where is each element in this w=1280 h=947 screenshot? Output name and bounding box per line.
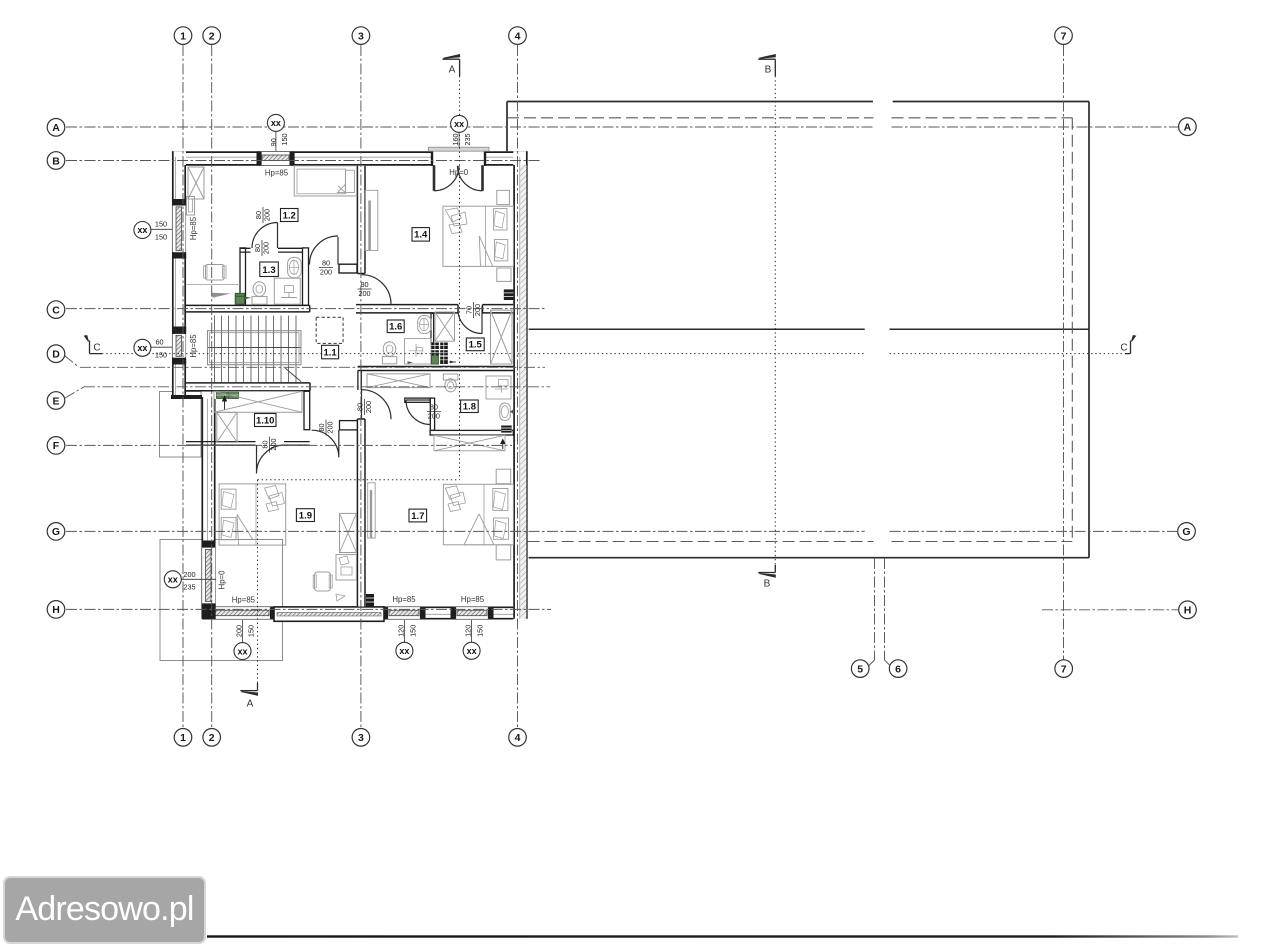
svg-text:200: 200 (364, 401, 373, 413)
section line A-A dotted upper (459, 76, 461, 480)
wall south of 1.6/1.5 (358, 366, 514, 370)
east exterior wall (513, 151, 527, 619)
cabinet 1.1 dashed (316, 317, 343, 343)
terrace left large (160, 540, 283, 661)
grid circle 2 bottom (203, 729, 221, 747)
svg-text:200: 200 (326, 421, 335, 433)
grid line H (66, 608, 1178, 610)
radiator 1.3 green (235, 293, 244, 304)
grid line G (66, 530, 1177, 532)
door 1.4 leaf and arc (362, 275, 392, 305)
roof outline top edge (507, 101, 1089, 103)
wardrobe 1.9 (340, 513, 357, 552)
door hall-1.2 leaf and arc (310, 236, 339, 265)
svg-text:1.3: 1.3 (262, 265, 275, 276)
svg-text:H: H (1184, 605, 1192, 617)
toilet 1.6 (382, 342, 396, 364)
grid circle 1 top (174, 27, 192, 45)
roof outline left edge (506, 102, 508, 152)
balcony door 160/235 north opening (432, 150, 485, 166)
bed 1.2 single (294, 166, 356, 196)
balcony double door right (481, 165, 484, 191)
svg-text:120: 120 (396, 625, 405, 637)
room label 1.3 (260, 262, 279, 277)
grid circle G right (1178, 523, 1196, 541)
flue 1.8 (501, 426, 512, 433)
door 1.3 leaf and arc (252, 222, 278, 248)
bed 1.4 double (443, 206, 514, 266)
room label 1.1 (322, 345, 339, 359)
wall corridor south (405, 398, 430, 402)
svg-text:6: 6 (895, 663, 901, 675)
svg-text:C: C (52, 304, 60, 316)
wall 1.10 east (304, 391, 310, 429)
washbasin cabinet 1.3 (274, 278, 300, 304)
wall corridor W2 (186, 305, 310, 312)
wall 1.9-1.7 divider lower (357, 419, 366, 607)
sink 1.3 (288, 257, 302, 277)
svg-text:H: H (52, 604, 60, 616)
svg-text:Hp=85: Hp=85 (232, 595, 256, 604)
dim 80/200 door 1.9hall rotated (317, 420, 335, 436)
room label 1.10 (255, 414, 277, 427)
xx marker 120/150 south right (463, 620, 485, 659)
door 1.8 leaf and arc (406, 400, 431, 425)
grid circle E left (47, 392, 65, 410)
room label 1.2 (281, 209, 299, 222)
sink 1.6 (418, 316, 432, 334)
svg-text:1.8: 1.8 (463, 402, 476, 413)
grid 6 elbow (885, 660, 891, 666)
svg-text:150: 150 (155, 220, 167, 229)
grid circle F left (47, 437, 65, 455)
wardrobe 1.10 left column (217, 397, 237, 443)
svg-text:D: D (52, 349, 60, 361)
window 90/150 north (261, 152, 291, 165)
svg-text:200: 200 (262, 242, 271, 254)
wall grid3 upper (357, 166, 366, 274)
stair landing edge (208, 347, 302, 349)
stair break line (285, 368, 301, 382)
svg-text:150: 150 (476, 625, 485, 637)
grid circle 4 top (509, 27, 527, 45)
nightstand 1.4 top (497, 190, 510, 204)
window 60/150 west (172, 333, 185, 359)
svg-text:120: 120 (464, 625, 473, 637)
svg-text:3: 3 (358, 732, 364, 744)
window 120/150 south left (387, 607, 421, 619)
svg-text:7: 7 (1061, 663, 1067, 675)
svg-text:A: A (52, 122, 60, 134)
door 1.6 leaf and arc (458, 307, 482, 335)
svg-text:1: 1 (180, 30, 186, 42)
west exterior wall upper (172, 151, 186, 397)
Hp=0 terrace door west rotated (218, 570, 227, 590)
svg-text:200: 200 (473, 304, 482, 316)
roof outline right edge (1088, 102, 1090, 558)
grid line 7 (1063, 45, 1065, 660)
south exterior wall (202, 607, 528, 620)
section flag C left (85, 336, 103, 354)
toilet 1.3 (245, 282, 267, 305)
svg-text:1.6: 1.6 (389, 322, 402, 333)
svg-text:2: 2 (209, 732, 215, 744)
room label 1.8 (461, 400, 479, 413)
dim 80/200 door 1.4 (358, 280, 372, 298)
svg-text:200: 200 (269, 438, 278, 450)
grid line 4 (517, 45, 519, 728)
grid line E (84, 386, 550, 388)
nightstand 1.4 bottom (497, 268, 511, 281)
svg-text:1.9: 1.9 (299, 510, 312, 521)
svg-text:60: 60 (155, 338, 163, 347)
flue 1.5 wall (504, 289, 514, 300)
svg-text:A: A (247, 699, 254, 710)
door 1.9 leaf and arc (362, 390, 392, 420)
svg-text:G: G (1182, 526, 1190, 538)
grid 5 elbow (869, 660, 875, 666)
roof outline bottom edge (529, 557, 1089, 559)
section line A-A dotted lower (257, 480, 259, 683)
svg-text:1.2: 1.2 (283, 210, 296, 221)
svg-text:200: 200 (263, 209, 272, 221)
grid circle C left (47, 301, 65, 319)
svg-text:F: F (53, 440, 60, 452)
svg-text:150: 150 (247, 625, 256, 637)
svg-text:G: G (52, 526, 60, 538)
grid circle 5 (851, 660, 869, 678)
washer 1.10 green (217, 392, 239, 399)
svg-text:1.5: 1.5 (469, 340, 483, 351)
grid circle H left (47, 601, 65, 619)
corridor wardrobe band (367, 374, 430, 388)
Hp=85 west window 150 rotated (189, 216, 198, 240)
svg-text:A: A (1184, 122, 1192, 134)
svg-text:B: B (52, 155, 60, 167)
grid E elbow (65, 387, 84, 398)
wall bath1.3 east (303, 248, 309, 306)
section flag B top (758, 55, 775, 76)
svg-text:Hp=85: Hp=85 (265, 168, 289, 177)
grid circle 6 (889, 660, 907, 678)
grid line F (66, 444, 512, 446)
dim 70/200 door 1.6 rotated (465, 302, 483, 318)
desk 1.2 west wall (187, 197, 195, 216)
grid circle A right (1179, 118, 1197, 136)
svg-text:80: 80 (322, 259, 330, 268)
west exterior wall lower (202, 397, 216, 620)
terrace left small (160, 392, 202, 458)
svg-text:1.7: 1.7 (411, 511, 424, 522)
svg-text:2: 2 (209, 30, 215, 42)
balcony sill strip (428, 147, 489, 151)
svg-text:80: 80 (430, 403, 438, 412)
sink 1.8 (500, 403, 513, 421)
grid circle 2 top (203, 27, 221, 45)
stair treads (215, 316, 297, 383)
wall 1.8 south (430, 430, 513, 435)
xx marker 200/150 south (234, 620, 256, 660)
svg-text:200: 200 (183, 570, 195, 579)
window 120/150 south right (455, 607, 489, 619)
svg-text:150: 150 (155, 233, 167, 242)
flue 1.9/1.7 south (366, 594, 374, 607)
west wall step (171, 395, 202, 399)
dim 80/200 door 1.8 (427, 403, 441, 421)
section line B-B dotted (774, 76, 776, 570)
svg-text:4: 4 (515, 30, 521, 42)
storage band under 1.8 (434, 435, 505, 451)
window 150/150 west (172, 204, 185, 253)
dim 80/200 door 1.3b rotated (253, 240, 271, 256)
wardrobe 1.5 small (435, 312, 455, 341)
svg-text:235: 235 (463, 133, 472, 145)
svg-text:1.10: 1.10 (256, 415, 275, 426)
wall bath1.3 west (240, 248, 246, 306)
window 200/150 south (213, 607, 271, 619)
terrace door frame south (274, 607, 384, 621)
grid line B (66, 160, 540, 162)
stair rail band (208, 331, 302, 365)
xx marker 90/150 top (267, 114, 289, 151)
grid circle 3 bottom (352, 729, 370, 747)
room label 1.5 (466, 338, 484, 351)
terrace door 200/235 west (202, 546, 216, 604)
balcony double door left (433, 165, 436, 191)
bottom rule line (0, 0, 1, 1)
wall bath1.6 east divider (431, 313, 434, 343)
section line C-C dotted (102, 353, 1125, 355)
dim 80/200 door 1.9 rotated (356, 399, 374, 415)
grid lines (65, 45, 1179, 728)
grid line 3 (360, 45, 362, 728)
grid line C (66, 308, 545, 310)
svg-text:B: B (764, 579, 771, 590)
svg-text:1.4: 1.4 (414, 230, 428, 241)
room label 1.7 (409, 509, 427, 522)
wall 1.10 south segments (186, 442, 310, 446)
svg-text:150: 150 (280, 133, 289, 145)
door 1.10 leaf and arc (257, 445, 285, 474)
door 1.9 from hall leaf and arc (312, 430, 339, 458)
dim 80/200 door hall-1.2 (319, 259, 333, 277)
svg-text:1.1: 1.1 (323, 347, 337, 358)
toilet 1.8 (443, 374, 458, 392)
svg-text:160: 160 (451, 133, 460, 145)
grid line 2 (211, 45, 213, 728)
svg-text:Hp=85: Hp=85 (189, 334, 198, 358)
section flag C right (1120, 336, 1135, 354)
wall junction blocks (172, 151, 494, 619)
svg-text:150: 150 (155, 351, 167, 360)
svg-text:150: 150 (408, 625, 417, 637)
svg-text:Hp=85: Hp=85 (461, 595, 485, 604)
svg-text:Hp=85: Hp=85 (392, 595, 416, 604)
section flag A bottom (240, 683, 257, 710)
svg-text:4: 4 (515, 732, 521, 744)
room label 1.4 (412, 228, 430, 242)
bed 1.9 double (219, 484, 286, 545)
wall bath1.6 north (356, 304, 513, 313)
grid circle 4 bottom (509, 729, 527, 747)
roof hidden dashed top (507, 117, 1072, 119)
wardrobe 1.5 (491, 310, 513, 364)
nightstand 1.7 top (496, 469, 511, 484)
svg-text:3: 3 (358, 30, 364, 42)
wall hall south short (340, 421, 358, 430)
armchair 1.2 (187, 265, 241, 298)
grid circle 1 bottom (174, 729, 192, 747)
grid circle 7 top (1055, 27, 1073, 45)
wall hall north short (339, 264, 357, 273)
xx marker 120/150 south left (396, 620, 418, 659)
wardrobe 1.10 band (214, 391, 302, 412)
grid circle 7 bottom (1055, 660, 1073, 678)
svg-text:B: B (765, 65, 772, 76)
grid circle H right (1179, 601, 1197, 619)
roof interior solid line (529, 328, 1089, 330)
section flag B bottom (758, 565, 775, 590)
roof hidden dashed bottom (528, 541, 1073, 543)
xx marker 160/235 top (451, 115, 473, 147)
wall stairs south / 1.10 north (186, 383, 310, 392)
grid circle G left (47, 523, 65, 541)
svg-text:1: 1 (180, 732, 186, 744)
flue stack 1.6/1.5 (431, 343, 456, 365)
grid circle 3 top (352, 27, 370, 45)
north exterior wall (172, 151, 528, 165)
svg-text:200: 200 (428, 411, 440, 420)
shower 1.6 (405, 339, 432, 365)
svg-text:C: C (1120, 343, 1127, 354)
wardrobe 1.2 (188, 167, 204, 199)
xx marker 200/235 west terrace (164, 570, 216, 592)
grid line 1 (182, 45, 184, 728)
vanity counter 1.8 (486, 376, 511, 399)
svg-text:A: A (449, 65, 456, 76)
svg-text:200: 200 (320, 267, 332, 276)
dim 80/200 door 1.3 rotated (254, 207, 272, 223)
svg-text:Hp=85: Hp=85 (189, 216, 198, 240)
nightstand 1.7 bottom (496, 545, 511, 560)
svg-text:200: 200 (358, 289, 370, 298)
svg-text:80: 80 (360, 280, 368, 289)
grid circle B left (47, 152, 65, 170)
wall bath1.3 north segments (240, 247, 309, 249)
room label 1.9 (296, 509, 314, 522)
section line A-A dotted jog (258, 479, 460, 481)
dim 80/200 door 1.10 rotated (261, 437, 279, 453)
room label 1.6 (387, 320, 404, 333)
svg-text:Hp=0: Hp=0 (449, 168, 469, 177)
watermark Adresowo.pl (3, 876, 206, 944)
divider bar 1.7 (368, 483, 376, 538)
svg-text:E: E (52, 395, 59, 407)
wall 1.8 west (430, 398, 434, 430)
section flag A top (443, 55, 460, 76)
grid D elbow (65, 356, 80, 368)
roof hidden dashed right (1071, 118, 1073, 542)
svg-text:90: 90 (269, 138, 278, 146)
svg-text:7: 7 (1061, 30, 1067, 42)
desk 1.9 (313, 555, 356, 601)
svg-text:235: 235 (183, 583, 195, 592)
svg-text:200: 200 (235, 625, 244, 637)
grid line D (80, 366, 545, 368)
grid line 6 (884, 558, 886, 660)
grid circle D left (47, 345, 65, 363)
svg-text:5: 5 (857, 663, 863, 675)
wall hall east upper (358, 371, 361, 390)
grid circle A left (47, 119, 65, 137)
xx marker 60/150 west (134, 338, 172, 360)
svg-text:C: C (93, 343, 100, 354)
grid line A (66, 126, 1178, 128)
grid line 5 (874, 558, 876, 660)
bed 1.7 double (443, 484, 513, 545)
svg-text:Hp=0: Hp=0 (218, 570, 227, 590)
Hp=85 west window 60 rotated (189, 334, 198, 358)
wardrobe 1.4 sliding (365, 190, 378, 250)
xx marker 150/150 west (134, 220, 172, 242)
